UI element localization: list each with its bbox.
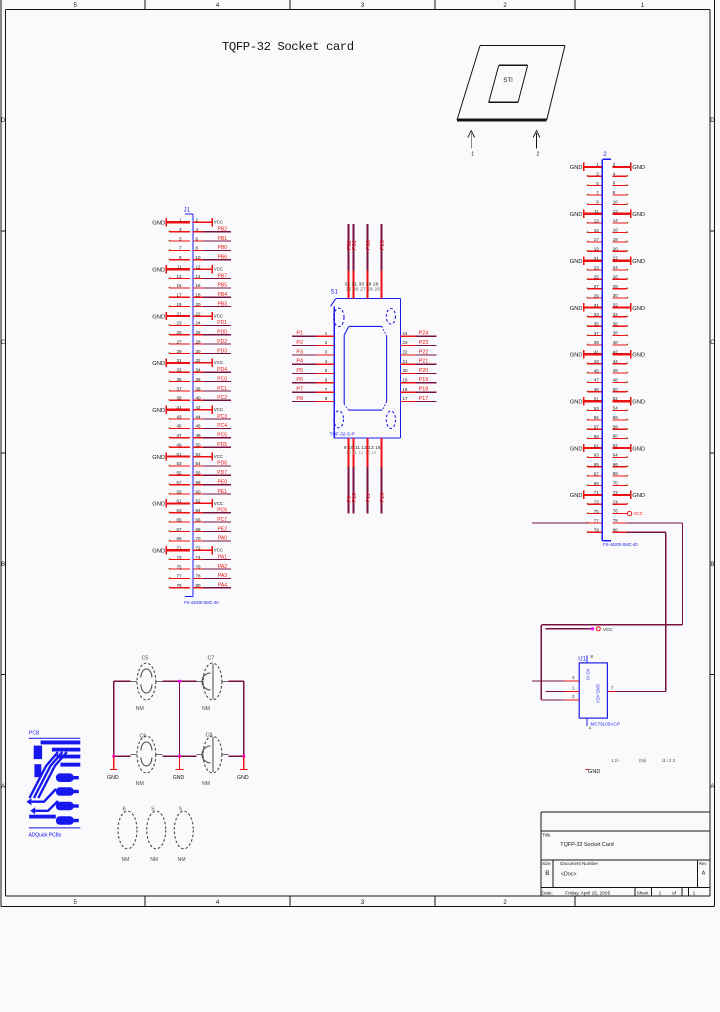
svg-text:PD3: PD3 (217, 348, 227, 354)
svg-text:41: 41 (176, 405, 182, 410)
svg-text:GND: GND (152, 408, 165, 414)
svg-text:24: 24 (613, 265, 619, 270)
svg-text:30: 30 (613, 293, 619, 298)
svg-text:10: 10 (613, 200, 619, 205)
svg-text:80: 80 (613, 527, 619, 532)
svg-text:PE1: PE1 (218, 489, 228, 495)
svg-text:D: D (1, 118, 6, 124)
svg-text:PC5: PC5 (217, 433, 227, 439)
svg-text:51: 51 (594, 396, 600, 401)
svg-text:GND: GND (152, 549, 165, 555)
svg-text:C: C (1, 340, 6, 346)
svg-text:P16: P16 (380, 493, 386, 503)
svg-text:69: 69 (176, 536, 182, 541)
svg-text:24: 24 (403, 331, 408, 336)
svg-text:59: 59 (594, 434, 600, 439)
svg-text:C7: C7 (208, 656, 215, 662)
svg-text:21: 21 (594, 256, 600, 261)
svg-text:68: 68 (613, 471, 619, 476)
svg-text:PD5: PD5 (217, 442, 227, 448)
svg-text:P20: P20 (419, 368, 429, 374)
svg-text:J1: J1 (184, 207, 191, 214)
svg-text:18: 18 (403, 387, 408, 392)
svg-text:26: 26 (613, 274, 619, 279)
svg-text:GND: GND (632, 306, 645, 312)
svg-text:GND: GND (570, 306, 583, 312)
svg-text:48: 48 (613, 378, 619, 383)
svg-text:35: 35 (594, 322, 600, 327)
svg-text:GND ADJ: GND ADJ (596, 684, 601, 703)
svg-text:GND: GND (152, 502, 165, 508)
svg-text:GND: GND (152, 221, 165, 227)
svg-text:16: 16 (613, 228, 619, 233)
svg-text:35: 35 (176, 377, 182, 382)
svg-text:GND: GND (173, 775, 185, 781)
svg-text:25: 25 (594, 275, 600, 280)
svg-text:P3: P3 (296, 349, 303, 355)
svg-text:PB3: PB3 (218, 301, 228, 307)
svg-text:PB2: PB2 (218, 227, 228, 233)
svg-text:20: 20 (403, 368, 408, 373)
svg-text:P21: P21 (419, 359, 429, 365)
svg-text:P11: P11 (366, 493, 372, 502)
svg-text:57: 57 (176, 480, 182, 485)
svg-text:PE0: PE0 (218, 480, 228, 486)
svg-text:PC1: PC1 (217, 386, 227, 392)
svg-text:14: 14 (613, 218, 619, 223)
svg-text:79: 79 (594, 528, 600, 533)
svg-text:75: 75 (594, 509, 600, 514)
svg-text:U1: U1 (578, 656, 586, 662)
svg-text:53: 53 (594, 406, 600, 411)
svg-text:P4: P4 (296, 359, 303, 365)
svg-text:PC2: PC2 (217, 395, 227, 401)
svg-text:1: 1 (659, 890, 662, 896)
svg-text:S1: S1 (331, 288, 339, 295)
svg-text:47: 47 (176, 433, 182, 438)
svg-text:22: 22 (613, 256, 619, 261)
svg-text:GND: GND (632, 212, 645, 218)
svg-text:31: 31 (594, 303, 600, 308)
svg-text:P8: P8 (296, 396, 303, 402)
svg-text:GND: GND (152, 361, 165, 367)
svg-text:29: 29 (594, 293, 600, 298)
svg-text:11: 11 (594, 209, 599, 214)
svg-text:63: 63 (176, 508, 182, 513)
svg-text:P2: P2 (296, 340, 303, 346)
svg-text:PB0: PB0 (218, 245, 228, 251)
svg-text:62: 62 (613, 443, 619, 448)
svg-text:79: 79 (176, 583, 182, 588)
svg-text:GND: GND (570, 259, 583, 265)
svg-text:A: A (702, 871, 706, 877)
svg-text:27: 27 (594, 284, 600, 289)
svg-text:36: 36 (613, 321, 619, 326)
svg-text:70: 70 (613, 481, 619, 486)
svg-text:TQF-32-S-P: TQF-32-S-P (330, 431, 355, 437)
svg-text:P19: P19 (419, 377, 429, 383)
svg-text:39: 39 (176, 396, 182, 401)
svg-text:GND: GND (588, 769, 600, 775)
svg-text:TQFP-32 Socket Card: TQFP-32 Socket Card (560, 842, 613, 848)
svg-text:PB1: PB1 (218, 236, 228, 242)
svg-text:NM: NM (122, 857, 130, 863)
svg-text:PA4: PA4 (218, 583, 227, 589)
svg-text:P30: P30 (366, 240, 372, 250)
svg-text:P22: P22 (419, 349, 429, 355)
svg-text:Document Number: Document Number (560, 861, 598, 866)
svg-text:P7: P7 (296, 387, 303, 393)
svg-text:33: 33 (594, 312, 600, 317)
svg-text:NM: NM (150, 857, 158, 863)
svg-text:31: 31 (176, 358, 182, 363)
svg-text:43: 43 (176, 414, 182, 419)
svg-text:65: 65 (176, 517, 182, 522)
svg-text:45: 45 (594, 368, 600, 373)
svg-text:67: 67 (594, 471, 600, 476)
svg-text:17: 17 (403, 396, 408, 401)
svg-text:GND: GND (152, 455, 165, 461)
svg-text:67: 67 (176, 527, 182, 532)
svg-text:VCC: VCC (214, 267, 223, 272)
svg-text:GND: GND (152, 314, 165, 320)
svg-text:PB7: PB7 (218, 273, 228, 279)
svg-text:GND: GND (152, 267, 165, 273)
svg-text:50: 50 (613, 387, 619, 392)
svg-text:PD4: PD4 (217, 367, 227, 373)
svg-text:GND: GND (570, 446, 583, 452)
svg-text:41: 41 (594, 350, 600, 355)
svg-text:19: 19 (594, 247, 600, 252)
svg-text:P5: P5 (296, 368, 303, 374)
svg-text:<Doc>: <Doc> (561, 871, 577, 877)
svg-text:59: 59 (176, 489, 182, 494)
svg-text:58: 58 (613, 424, 619, 429)
svg-text:39: 39 (594, 340, 600, 345)
svg-text:NM: NM (136, 706, 144, 712)
svg-text:TQFP-32 Socket card: TQFP-32 Socket card (222, 40, 354, 54)
svg-text:57: 57 (594, 425, 600, 430)
svg-text:17: 17 (594, 237, 600, 242)
svg-text:42: 42 (613, 349, 619, 354)
svg-text:PC4: PC4 (217, 423, 227, 429)
svg-text:10 11 12 14 15: 10 11 12 14 15 (346, 450, 377, 455)
svg-text:P17: P17 (419, 396, 429, 402)
svg-text:23: 23 (403, 340, 408, 345)
svg-text:1: 1 (693, 890, 696, 896)
svg-text:of: of (672, 890, 677, 896)
svg-text:19: 19 (176, 302, 182, 307)
svg-text:P23: P23 (419, 340, 429, 346)
svg-text:55: 55 (176, 471, 182, 476)
svg-text:P31: P31 (352, 240, 358, 250)
svg-text:MC78L05ACP: MC78L05ACP (591, 721, 620, 726)
svg-text:PE2: PE2 (218, 526, 228, 532)
svg-text:GND: GND (632, 259, 645, 265)
svg-text:D: D (710, 118, 715, 124)
svg-text:PB6: PB6 (218, 255, 228, 261)
svg-text:18: 18 (613, 237, 619, 242)
svg-text:29: 29 (176, 349, 182, 354)
svg-text:PB4: PB4 (218, 292, 228, 298)
svg-text:Size: Size (542, 861, 551, 866)
svg-text:49: 49 (594, 387, 600, 392)
svg-text:B: B (1, 562, 5, 568)
svg-text:FS-44200-SMC-40: FS-44200-SMC-40 (603, 542, 638, 547)
svg-text:P10: P10 (352, 493, 358, 503)
svg-text:PD2: PD2 (217, 339, 227, 345)
svg-text:75: 75 (176, 564, 182, 569)
svg-text:17: 17 (176, 293, 182, 298)
svg-text:43: 43 (594, 359, 600, 364)
svg-text:54: 54 (613, 406, 619, 411)
svg-text:VO VI: VO VI (586, 669, 591, 680)
svg-text:PA1: PA1 (218, 554, 227, 560)
svg-text:21: 21 (176, 311, 182, 316)
svg-text:Friday, April 15, 2005: Friday, April 15, 2005 (565, 891, 610, 897)
svg-text:C5: C5 (142, 656, 149, 662)
svg-text:44: 44 (613, 359, 619, 364)
svg-text:VCC: VCC (214, 501, 223, 506)
svg-text:PCB: PCB (29, 731, 40, 737)
svg-text:PC0: PC0 (217, 376, 227, 382)
svg-text:37: 37 (594, 331, 600, 336)
svg-text:STl: STl (503, 77, 512, 84)
svg-text:PA3: PA3 (218, 573, 227, 579)
svg-text:77: 77 (594, 518, 600, 523)
svg-text:C: C (710, 340, 715, 346)
svg-text:2: 2 (603, 151, 607, 158)
svg-text:VCC: VCC (214, 407, 223, 412)
svg-text:15: 15 (594, 228, 600, 233)
svg-text:71: 71 (176, 546, 182, 551)
svg-text:55: 55 (594, 415, 600, 420)
svg-text:C8: C8 (206, 733, 213, 739)
svg-text:GND: GND (237, 775, 249, 781)
svg-text:19: 19 (403, 378, 408, 383)
svg-text:VCC: VCC (214, 220, 223, 225)
svg-text:12: 12 (613, 209, 619, 214)
svg-text:A: A (710, 784, 714, 790)
svg-text:GND: GND (570, 165, 583, 171)
svg-text:P6: P6 (296, 377, 303, 383)
svg-text:P1: P1 (296, 331, 303, 337)
svg-text:NM: NM (136, 781, 144, 787)
svg-text:13: 13 (176, 274, 182, 279)
svg-text:38: 38 (613, 331, 619, 336)
svg-text:GND: GND (632, 493, 645, 499)
svg-text:33: 33 (176, 368, 182, 373)
svg-text:23: 23 (594, 265, 600, 270)
svg-text:VCC: VCC (634, 511, 643, 516)
svg-text:22: 22 (403, 350, 408, 355)
svg-text:Rev: Rev (699, 861, 707, 866)
svg-text:PA2: PA2 (218, 564, 227, 570)
svg-text:VCC: VCC (214, 360, 223, 365)
svg-text:B: B (710, 562, 714, 568)
svg-text:VCC: VCC (214, 313, 223, 318)
svg-text:ADQuick PCBs: ADQuick PCBs (29, 833, 62, 839)
svg-text:Date:: Date: (542, 890, 553, 895)
svg-text:NM: NM (178, 857, 186, 863)
svg-text:P25: P25 (380, 240, 386, 250)
svg-text:P24: P24 (419, 331, 429, 337)
svg-text:23: 23 (176, 321, 182, 326)
svg-text:52: 52 (613, 396, 619, 401)
svg-text:GND: GND (570, 353, 583, 359)
svg-text:A: A (1, 784, 5, 790)
svg-text:VCC: VCC (214, 454, 223, 459)
svg-text:15: 15 (176, 283, 182, 288)
svg-text:64: 64 (613, 453, 619, 458)
svg-text:PD1: PD1 (217, 320, 227, 326)
svg-text:61: 61 (176, 499, 182, 504)
svg-text:40: 40 (613, 340, 619, 345)
svg-text:NM: NM (202, 781, 210, 787)
svg-text:74: 74 (613, 499, 619, 504)
svg-text:27: 27 (176, 339, 182, 344)
svg-text:65: 65 (594, 462, 600, 467)
svg-text:11: 11 (177, 264, 182, 269)
svg-text:B: B (545, 870, 549, 877)
svg-text:63: 63 (594, 453, 600, 458)
svg-text:56: 56 (613, 415, 619, 420)
svg-text:GND: GND (570, 493, 583, 499)
svg-text:Sheet: Sheet (637, 890, 650, 895)
svg-text:72: 72 (613, 490, 619, 495)
svg-text:PC6: PC6 (217, 508, 227, 514)
svg-text:71: 71 (594, 490, 600, 495)
svg-text:FS-44200-SMC-40: FS-44200-SMC-40 (184, 600, 219, 605)
svg-text:49: 49 (176, 443, 182, 448)
svg-text:21: 21 (403, 359, 408, 364)
svg-text:60: 60 (613, 434, 619, 439)
svg-text:1: 1 (471, 152, 474, 158)
svg-text:20: 20 (613, 246, 619, 251)
svg-text:PA0: PA0 (218, 536, 227, 542)
svg-text:47: 47 (594, 378, 600, 383)
svg-text:PC3: PC3 (217, 414, 227, 420)
svg-text:66: 66 (613, 462, 619, 467)
svg-text:37: 37 (176, 386, 182, 391)
svg-text:VCC: VCC (214, 548, 223, 553)
svg-text:P18: P18 (419, 387, 429, 393)
svg-text:13: 13 (594, 218, 600, 223)
svg-text:GND: GND (570, 399, 583, 405)
svg-text:32: 32 (613, 303, 619, 308)
svg-text:78: 78 (613, 518, 619, 523)
svg-text:61: 61 (594, 443, 600, 448)
svg-text:69: 69 (594, 481, 600, 486)
svg-text:51: 51 (176, 452, 182, 457)
svg-text:77: 77 (176, 574, 182, 579)
svg-text:28: 28 (613, 284, 619, 289)
svg-text:25 26 27 28 26: 25 26 27 28 26 (346, 287, 380, 292)
svg-text:34: 34 (613, 312, 619, 317)
svg-text:i3 i 2 3: i3 i 2 3 (662, 758, 675, 763)
svg-text:73: 73 (594, 500, 600, 505)
svg-text:Title: Title (542, 833, 551, 838)
svg-text:GND: GND (632, 399, 645, 405)
svg-text:NM: NM (202, 706, 210, 712)
svg-text:PD6: PD6 (217, 461, 227, 467)
svg-text:73: 73 (176, 555, 182, 560)
svg-text:GND: GND (632, 165, 645, 171)
svg-text:53: 53 (176, 461, 182, 466)
svg-text:(N)i: (N)i (639, 758, 646, 763)
svg-text:1 2 i: 1 2 i (611, 758, 619, 763)
svg-text:GND: GND (632, 353, 645, 359)
svg-text:2: 2 (537, 152, 540, 158)
svg-text:46: 46 (613, 368, 619, 373)
svg-text:GND: GND (632, 446, 645, 452)
svg-text:PD0: PD0 (217, 330, 227, 336)
svg-text:GND: GND (570, 212, 583, 218)
svg-text:76: 76 (613, 509, 619, 514)
svg-text:GND: GND (107, 775, 119, 781)
svg-text:PC7: PC7 (217, 517, 227, 523)
svg-text:PD7: PD7 (217, 470, 227, 476)
svg-text:C6: C6 (140, 733, 147, 739)
svg-text:PB5: PB5 (218, 283, 228, 289)
svg-text:45: 45 (176, 424, 182, 429)
svg-text:VCC: VCC (603, 627, 613, 632)
svg-text:25: 25 (176, 330, 182, 335)
